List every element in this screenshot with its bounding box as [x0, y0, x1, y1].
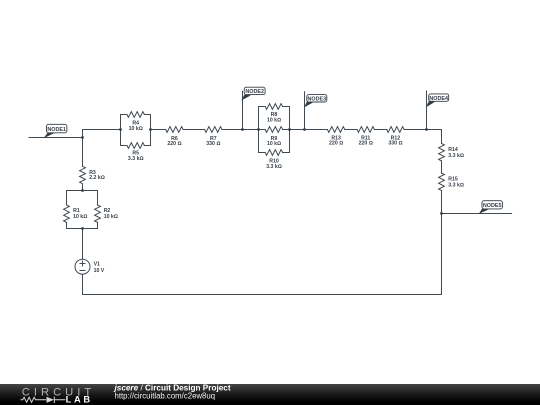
wire R10 branch stubs	[259, 152, 290, 154]
flag NODE3	[304, 95, 327, 108]
flag NODE2	[241, 87, 265, 100]
wire R8 block to R13	[290, 129, 328, 131]
svg-text:3.3 kΩ: 3.3 kΩ	[266, 164, 282, 170]
node junction dot R1R2 top	[81, 189, 84, 192]
logo resistor zigzag and diode	[21, 397, 66, 403]
wire NODE4 pole	[426, 91, 428, 130]
svg-text:NODE1: NODE1	[47, 127, 66, 133]
resistor R6	[166, 127, 183, 133]
node junction dot NODE3	[303, 128, 306, 131]
svg-text:V1: V1	[94, 262, 100, 268]
svg-text:330 Ω: 330 Ω	[388, 141, 402, 147]
svg-text:220 Ω: 220 Ω	[359, 141, 373, 147]
wire top rail left segment	[83, 129, 121, 131]
footer bar	[0, 384, 540, 405]
svg-text:NODE3: NODE3	[308, 97, 327, 103]
resistor R10	[265, 150, 282, 156]
svg-text:R14: R14	[448, 147, 458, 153]
wire R7 to R8 block	[222, 129, 259, 131]
resistor R9	[265, 127, 282, 133]
wire R8R9R10 block right edge	[289, 107, 291, 153]
resistor R1	[64, 205, 70, 222]
resistor R7	[205, 127, 222, 133]
wire R3 to R1R2 block	[82, 184, 84, 191]
wire R13 to R11	[345, 129, 357, 131]
resistor R3	[80, 166, 86, 183]
svg-text:NODE4: NODE4	[429, 96, 448, 102]
wire V1 to bottom rail	[82, 274, 84, 294]
wire R4R5 block right edge	[150, 115, 152, 146]
svg-text:10 kΩ: 10 kΩ	[73, 214, 87, 220]
wire R14 to R15	[441, 161, 443, 173]
resistor R4	[127, 112, 144, 118]
node junction dot NODE5	[440, 212, 443, 215]
node junction dot NODE2	[241, 128, 244, 131]
resistor R15	[439, 173, 445, 190]
flag NODE1	[44, 124, 67, 138]
flag NODE5	[479, 201, 503, 214]
svg-text:220 Ω: 220 Ω	[329, 141, 343, 147]
wire R1 branch top	[66, 191, 68, 206]
resistor R12	[387, 127, 404, 133]
resistor R13	[327, 127, 344, 133]
wire NODE1 stub	[29, 137, 83, 139]
svg-text:3.3 kΩ: 3.3 kΩ	[448, 153, 464, 159]
resistor R8	[265, 104, 282, 110]
svg-text:http://circuitlab.com/c2ew8uq: http://circuitlab.com/c2ew8uq	[115, 392, 216, 401]
svg-text:10 kΩ: 10 kΩ	[267, 141, 281, 147]
svg-text:10 kΩ: 10 kΩ	[129, 126, 143, 132]
resistor R11	[357, 127, 374, 133]
wire NODE3 pole	[304, 92, 306, 130]
node junction dot R4R5 left	[119, 128, 122, 131]
wire R4 branch stubs	[121, 114, 151, 116]
svg-text:10 kΩ: 10 kΩ	[104, 214, 118, 220]
svg-text:NODE2: NODE2	[245, 89, 264, 95]
wire R1R2 block bottom rail	[67, 228, 98, 230]
node junction dot R8 block right	[288, 128, 291, 131]
wire R12 to top-right corner	[404, 129, 441, 131]
wire R9 branch stubs	[259, 129, 290, 131]
svg-text:220 Ω: 220 Ω	[167, 141, 181, 147]
wire right vertical to R14	[441, 130, 443, 144]
wire R2 branch top	[97, 191, 99, 206]
wire R15 to bottom corner	[441, 191, 443, 295]
flag NODE4	[426, 94, 449, 107]
voltage source V1	[75, 259, 90, 274]
wire R1R2 block top rail	[67, 190, 98, 192]
svg-text:NODE5: NODE5	[483, 203, 502, 209]
wire left vertical from rail corner to R3	[82, 130, 84, 167]
node junction dot R4R5 right	[149, 128, 152, 131]
resistor R2	[95, 205, 101, 222]
wire NODE5 stub	[442, 213, 512, 215]
node junction dot R1R2 bottom	[81, 227, 84, 230]
wire R1 branch bottom	[66, 222, 68, 228]
wire rail R4R5 to R6	[151, 129, 166, 131]
wire R8 branch stubs	[259, 106, 290, 108]
resistor R14	[439, 144, 445, 161]
svg-text:330 Ω: 330 Ω	[206, 141, 220, 147]
wire R4R5 block left edge	[120, 115, 122, 146]
wire NODE2 pole	[242, 91, 244, 129]
node junction dot R8 block left	[257, 128, 260, 131]
wire block to V1	[82, 229, 84, 260]
resistor R5	[127, 143, 144, 149]
svg-text:3.3 kΩ: 3.3 kΩ	[128, 156, 144, 162]
svg-text:10 kΩ: 10 kΩ	[267, 117, 281, 123]
wire R6 to R7	[183, 129, 205, 131]
svg-text:10 V: 10 V	[94, 268, 105, 274]
svg-text:LAB: LAB	[66, 395, 93, 405]
wire R2 branch bottom	[97, 222, 99, 228]
node junction dot NODE1 tap	[81, 136, 84, 139]
node junction dot NODE4	[425, 128, 428, 131]
svg-text:2.2 kΩ: 2.2 kΩ	[89, 175, 105, 181]
wire R11 to R12	[374, 129, 386, 131]
wire bottom rail	[83, 294, 442, 296]
wire R5 branch stubs	[121, 145, 151, 147]
wire R8R9R10 block left edge	[258, 107, 260, 153]
svg-text:3.3 kΩ: 3.3 kΩ	[448, 183, 464, 189]
svg-text:R15: R15	[448, 176, 458, 182]
